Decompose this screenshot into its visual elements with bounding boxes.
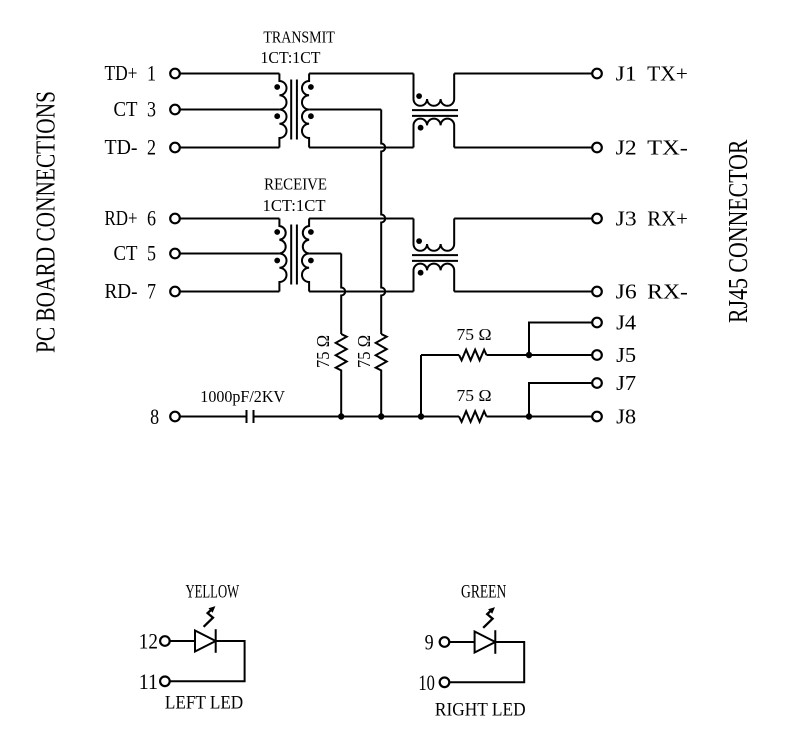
node C1 value 1000pF/2KV xyxy=(200,387,285,406)
node TRANSMIT label xyxy=(261,28,335,67)
node R1 value 75 ohm xyxy=(313,335,333,368)
terminal pin 8 xyxy=(170,412,180,422)
wire T2 secondary CT to node xyxy=(309,253,341,255)
node PC BOARD CONNECTIONS side label xyxy=(31,91,61,353)
svg-text:TX-: TX- xyxy=(647,135,688,159)
terminal J3 xyxy=(592,214,602,224)
terminal J7 xyxy=(592,378,602,388)
transformer T2 polarity dots xyxy=(274,229,313,263)
choke L1 core xyxy=(412,109,458,111)
terminal pin 1 xyxy=(170,69,180,79)
svg-text:75 Ω: 75 Ω xyxy=(457,325,492,344)
svg-text:7: 7 xyxy=(147,279,156,304)
svg-text:PC BOARD CONNECTIONS: PC BOARD CONNECTIONS xyxy=(31,91,61,353)
node J1 TX+ label xyxy=(616,61,688,85)
terminal J6 xyxy=(592,287,602,297)
transformer T1 secondary winding xyxy=(302,74,309,148)
svg-text:RD-: RD- xyxy=(105,279,138,303)
node J5 label xyxy=(616,343,636,367)
svg-text:J2: J2 xyxy=(616,135,637,159)
wire pin7 to T2 primary bottom xyxy=(180,291,280,293)
svg-text:1: 1 xyxy=(147,61,156,86)
transformer T1 core xyxy=(290,80,292,140)
wire vertical from T2 CT with hop, into resistor R1 xyxy=(341,254,345,335)
node LEFT LED label xyxy=(165,693,243,714)
svg-text:75 Ω: 75 Ω xyxy=(457,386,492,405)
node pin 10 label xyxy=(418,670,435,695)
junction dots on rails xyxy=(338,352,532,420)
svg-text:RD+: RD+ xyxy=(105,206,138,230)
LED D2 cathode bar xyxy=(494,630,496,654)
LED D2 green triangle xyxy=(475,632,496,653)
svg-text:10: 10 xyxy=(418,670,435,695)
wire J5 node up to J4 xyxy=(529,323,592,356)
svg-text:LEFT LED: LEFT LED xyxy=(165,693,243,714)
resistor R1 75ohm vertical xyxy=(336,334,347,417)
choke L2 bottom winding xyxy=(414,264,455,292)
node R2 value 75 ohm xyxy=(354,335,374,368)
transformer T1 primary winding xyxy=(279,74,286,148)
svg-text:8: 8 xyxy=(150,404,159,429)
choke L1 bottom winding xyxy=(414,119,455,148)
svg-text:J7: J7 xyxy=(616,371,636,395)
svg-text:3: 3 xyxy=(147,97,156,122)
wire T2 secondary bottom to choke L2 xyxy=(309,291,413,293)
terminal pin 11 xyxy=(160,677,170,687)
node J3 RX+ label xyxy=(616,206,688,230)
choke L2 polarity dots xyxy=(416,238,423,275)
node RD- pin 7 label xyxy=(105,279,157,304)
svg-text:12: 12 xyxy=(139,629,158,654)
svg-text:TD-: TD- xyxy=(105,135,138,159)
node TD+ pin 1 label xyxy=(105,61,157,86)
svg-text:J4: J4 xyxy=(616,310,637,334)
wire D1 cathode to pin 11 xyxy=(170,641,245,681)
wire pin3 to T1 primary CT xyxy=(180,109,280,111)
transformer T1 polarity dots xyxy=(274,84,313,119)
svg-text:2: 2 xyxy=(147,135,156,160)
wire R3 row left lead xyxy=(421,354,459,356)
node CT pin 3 label xyxy=(114,97,157,122)
svg-text:75 Ω: 75 Ω xyxy=(313,335,333,368)
svg-text:YELLOW: YELLOW xyxy=(186,582,240,603)
LED D1 cathode bar xyxy=(215,629,217,653)
terminal J8 xyxy=(592,412,602,422)
node J2 TX- label xyxy=(616,135,688,159)
wire D2 cathode to pin 10 xyxy=(449,642,524,682)
svg-text:5: 5 xyxy=(147,241,156,266)
svg-text:GREEN: GREEN xyxy=(461,582,506,603)
wire R3 to J5 xyxy=(487,354,593,356)
wire ground rail capacitor to R4 xyxy=(255,416,460,418)
svg-text:1CT:1CT: 1CT:1CT xyxy=(263,196,326,215)
wire pin6 to T2 primary top xyxy=(180,218,280,220)
LED D2 emission arrow xyxy=(483,610,492,627)
node pin 9 label xyxy=(425,630,434,655)
wire pin12 to LED D1 anode xyxy=(170,640,195,642)
svg-text:6: 6 xyxy=(147,206,156,231)
LED D1 emission arrow xyxy=(204,609,213,626)
svg-text:RX+: RX+ xyxy=(647,206,688,230)
node TD- pin 2 label xyxy=(105,135,157,160)
node pin 11 label xyxy=(139,669,158,694)
terminal J2 xyxy=(592,143,602,153)
svg-text:J6: J6 xyxy=(616,279,637,303)
choke L2 core xyxy=(412,254,458,256)
wire rail R4 to J8 xyxy=(487,416,593,418)
svg-text:RX-: RX- xyxy=(647,279,688,303)
wire T1 secondary CT to node xyxy=(309,109,381,111)
node RECEIVE label xyxy=(263,175,328,215)
svg-text:J1: J1 xyxy=(616,61,637,85)
svg-text:J3: J3 xyxy=(616,206,637,230)
node J7 label xyxy=(616,371,636,395)
terminal pin 12 xyxy=(160,636,170,646)
wire pin2 to T1 primary bottom xyxy=(180,147,280,149)
svg-text:9: 9 xyxy=(425,630,434,655)
wire choke L2 to J3 xyxy=(454,218,592,220)
transformer T2 primary winding xyxy=(279,219,286,292)
choke L1 top winding xyxy=(414,74,455,106)
svg-text:RIGHT LED: RIGHT LED xyxy=(435,700,526,721)
svg-text:J5: J5 xyxy=(616,343,636,367)
svg-text:11: 11 xyxy=(139,669,158,694)
node pin 8 label xyxy=(150,404,159,429)
svg-text:TX+: TX+ xyxy=(647,61,688,85)
svg-text:75 Ω: 75 Ω xyxy=(354,335,374,368)
node pin 12 label xyxy=(139,629,158,654)
terminal pin 3 xyxy=(170,105,180,115)
terminal J1 xyxy=(592,69,602,79)
node R3 value 75 ohm xyxy=(457,325,492,344)
transformer T2 secondary winding xyxy=(302,219,309,292)
svg-text:CT: CT xyxy=(114,241,138,265)
node R4 value 75 ohm xyxy=(457,386,492,405)
node GREEN label xyxy=(461,582,506,603)
node J6 RX- label xyxy=(616,279,688,303)
terminal pin 2 xyxy=(170,143,180,153)
wire T1 secondary top to choke L1 xyxy=(309,73,413,75)
wire T2 secondary top to choke L2 xyxy=(309,218,413,220)
svg-text:RECEIVE: RECEIVE xyxy=(264,175,327,194)
terminal pin 6 xyxy=(170,214,180,224)
terminal J4 xyxy=(592,318,602,328)
wire tap up from rail to R3 row xyxy=(420,355,422,417)
resistor R3 75ohm horizontal xyxy=(459,350,487,361)
wire pin8 to capacitor C1 xyxy=(180,416,246,418)
wire choke L2 to J6 xyxy=(454,291,592,293)
node YELLOW label xyxy=(186,582,240,603)
svg-text:RJ45 CONNECTOR: RJ45 CONNECTOR xyxy=(723,140,753,324)
svg-text:CT: CT xyxy=(114,97,138,121)
resistor R4 75ohm horizontal on rail xyxy=(459,411,487,422)
wire pin1 to T1 primary top xyxy=(180,73,280,75)
choke L1 polarity dots xyxy=(416,93,423,130)
node CT pin 5 label xyxy=(114,241,157,266)
svg-text:J8: J8 xyxy=(616,404,636,428)
node J8 label xyxy=(616,404,636,428)
wire pin5 to T2 primary CT xyxy=(180,253,280,255)
transformer T2 core xyxy=(290,225,292,285)
wire choke L1 to J2 xyxy=(454,147,592,149)
terminal pin 10 xyxy=(440,678,450,688)
terminal J5 xyxy=(592,350,602,360)
LED D1 yellow triangle xyxy=(195,631,216,652)
node J4 label xyxy=(616,310,637,334)
node RD+ pin 6 label xyxy=(105,206,157,231)
svg-text:1000pF/2KV: 1000pF/2KV xyxy=(200,387,285,406)
wire choke L1 to J1 xyxy=(454,73,592,75)
capacitor C1 1000pF/2KV xyxy=(246,410,248,423)
node RIGHT LED label xyxy=(435,700,526,721)
svg-text:TD+: TD+ xyxy=(105,61,138,85)
terminal pin 9 xyxy=(440,637,450,647)
svg-text:TRANSMIT: TRANSMIT xyxy=(263,28,334,47)
choke L2 top winding xyxy=(414,219,455,251)
wire J8 node up to J7 xyxy=(529,383,592,417)
node RJ45 CONNECTOR side label xyxy=(723,140,753,324)
svg-text:1CT:1CT: 1CT:1CT xyxy=(261,48,321,67)
wire T1 secondary bottom to choke L1 xyxy=(309,147,413,149)
resistor R2 75ohm vertical xyxy=(376,334,387,417)
terminal pin 5 xyxy=(170,249,180,259)
wire pin9 to LED D2 anode xyxy=(449,641,474,643)
wire vertical from T1 CT with hops, into resistor R2 xyxy=(381,110,385,335)
terminal pin 7 xyxy=(170,287,180,297)
